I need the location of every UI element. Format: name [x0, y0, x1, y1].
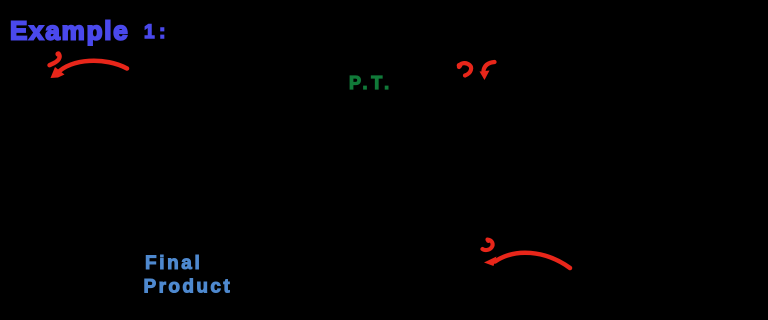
- blue label "Final Product": [144, 253, 233, 298]
- small red curly arrow (right hook, arrowhead down): [484, 62, 495, 71]
- arrowhead of bottom-right arrow: [484, 257, 497, 267]
- arrowhead of top-left arrow: [51, 67, 65, 78]
- svg-text:Example: Example: [10, 16, 130, 46]
- comma squiggle above bottom-right arrowhead: [483, 238, 493, 250]
- red curved arrow (top left): [57, 61, 127, 74]
- small red curly arrow (left hook): [457, 63, 471, 76]
- red curved arrow (bottom right): [495, 253, 570, 268]
- svg-text:P.T.: P.T.: [349, 73, 393, 93]
- svg-text:Final: Final: [145, 253, 202, 274]
- svg-text:1:: 1:: [144, 22, 170, 43]
- svg-text:Product: Product: [144, 277, 233, 298]
- title text "Example 1:": [10, 16, 170, 46]
- comma squiggle above top-left arrowhead: [50, 51, 61, 65]
